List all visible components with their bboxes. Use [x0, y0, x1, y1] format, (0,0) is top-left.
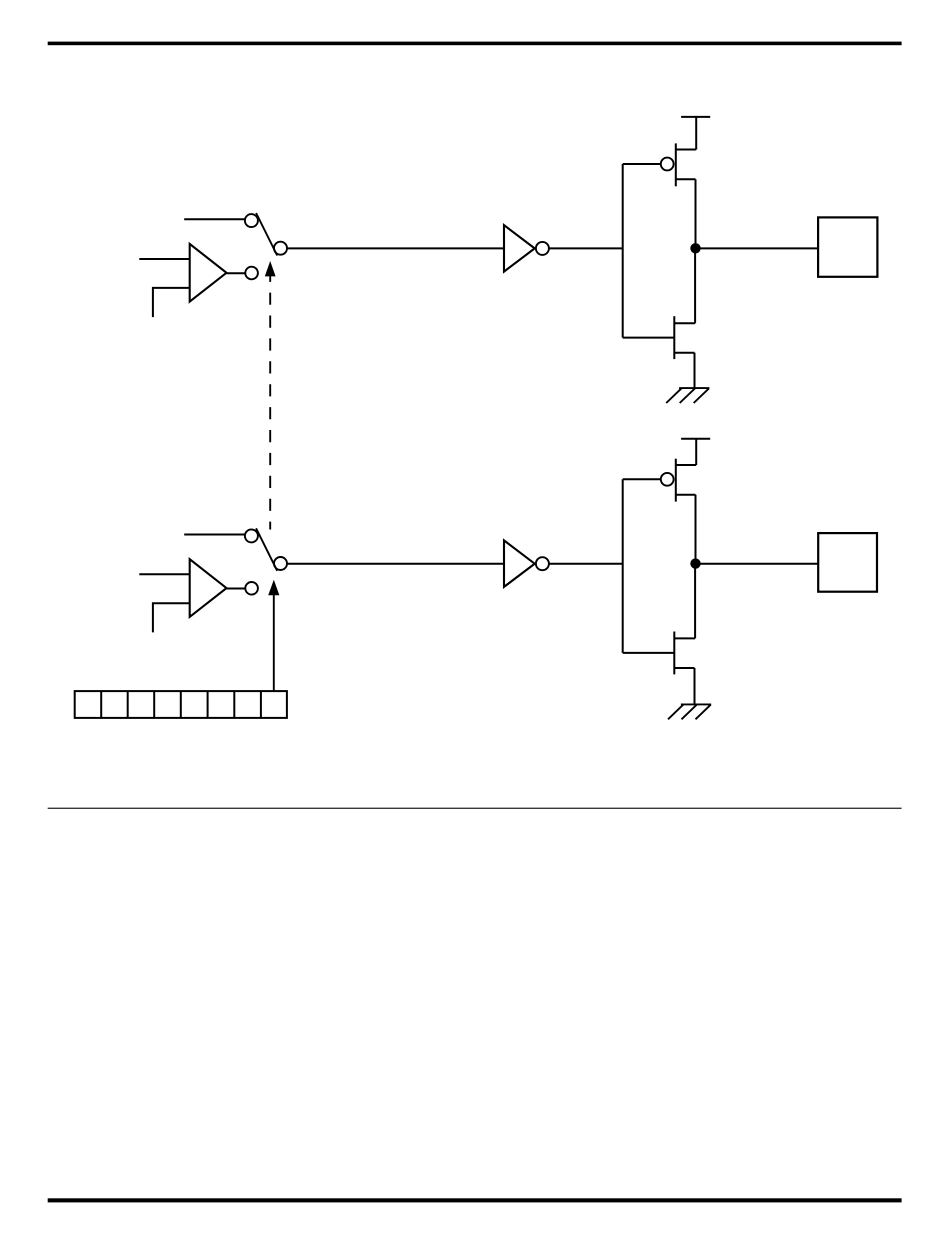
VDD supply stem (top driver): [695, 117, 697, 150]
transistor Q3 PMOS drain stem: [695, 495, 697, 564]
switch S2 throw wire: [184, 534, 245, 536]
inverter U1 bubble: [536, 242, 549, 255]
transistor Q2 NMOS source wire: [674, 352, 694, 354]
VDD supply stem (bottom driver): [695, 439, 697, 465]
transistor Q4 NMOS gate bar: [673, 632, 675, 675]
wire node OUT2 to pad: [696, 563, 819, 565]
transistor Q1 PMOS drain stem: [695, 179, 697, 248]
transistor Q4 NMOS drain wire: [674, 637, 695, 639]
ground (top driver): [666, 388, 709, 403]
switch S2 pole contact: [274, 557, 287, 570]
wire U1 output to gate node: [549, 247, 623, 249]
comparator A2 output contact: [245, 582, 258, 595]
node OUT2 junction dot: [690, 558, 700, 568]
wire node OUT1 to pad: [696, 247, 819, 249]
inverter U1: [504, 225, 535, 272]
comparator A2 input IN- wire: [153, 603, 190, 632]
pad PAD1: [818, 217, 877, 276]
transistor Q3 PMOS source wire: [676, 464, 696, 466]
switch S1 throw wire: [184, 218, 245, 220]
switch S2 arm: [256, 528, 277, 571]
transistor Q4 NMOS source wire: [674, 667, 694, 669]
transistor Q3 PMOS gate bubble: [661, 473, 674, 486]
transistor Q1 PMOS gate bar: [675, 143, 677, 186]
wire U2 output to gate node: [549, 563, 623, 565]
dashed select arrowhead at S1: [265, 261, 276, 276]
comparator A2 input IN+ wire: [139, 573, 189, 575]
transistor Q3 PMOS gate bar: [675, 459, 677, 502]
bottom page rule: [48, 1198, 902, 1202]
VDD supply bar (bottom driver): [681, 438, 710, 440]
comparator A1 input IN+ wire: [139, 258, 189, 260]
comparator A1 input IN- wire: [153, 288, 190, 317]
pad PAD2: [818, 533, 877, 592]
transistor Q4 NMOS drain stem: [694, 564, 696, 639]
switch S1 throw contact: [245, 214, 258, 227]
switch S2 throw contact: [245, 529, 258, 542]
comparator A2: [190, 559, 227, 617]
transistor Q2 NMOS source stem: [694, 353, 696, 388]
top page rule: [48, 42, 902, 46]
comparator A1: [190, 244, 227, 302]
solid select arrowhead at S2: [268, 580, 279, 595]
inverter U2 bubble: [536, 557, 549, 570]
transistor Q1 PMOS gate wire: [623, 163, 661, 165]
transistor Q4 NMOS gate wire: [623, 652, 675, 654]
transistor Q3 PMOS drain wire: [676, 494, 696, 496]
transistor Q3 PMOS gate wire: [623, 478, 661, 480]
ground (bottom driver): [668, 704, 711, 719]
wire S1 pole to inverter U1: [287, 247, 504, 249]
transistor Q1 PMOS drain wire: [676, 178, 696, 180]
VDD supply bar (top driver): [681, 116, 710, 118]
transistor Q2 NMOS gate wire: [623, 337, 675, 339]
gate bus vertical wire (top driver): [622, 164, 624, 338]
wire S2 pole to inverter U2: [287, 563, 504, 565]
inverter U2: [504, 540, 535, 587]
transistor Q1 PMOS source wire: [676, 149, 696, 151]
switch S1 pole contact: [274, 242, 287, 255]
comparator A2 output wire: [227, 588, 246, 590]
switch S1 arm: [256, 213, 277, 256]
transistor Q4 NMOS source stem: [694, 668, 696, 704]
transistor Q1 PMOS gate bubble: [661, 158, 674, 171]
gate bus vertical wire (bottom driver): [622, 479, 624, 653]
transistor Q2 NMOS drain wire: [674, 322, 695, 324]
comparator A1 output contact: [245, 267, 258, 280]
solid select wire register to S2: [273, 595, 275, 691]
transistor Q2 NMOS drain stem: [694, 248, 696, 323]
comparator A1 output wire: [227, 272, 246, 274]
control register: [75, 691, 287, 718]
dashed select wire to S1: [269, 270, 271, 530]
node OUT1 junction dot: [690, 243, 700, 253]
middle page rule: [48, 808, 902, 809]
transistor Q2 NMOS gate bar: [673, 316, 675, 359]
